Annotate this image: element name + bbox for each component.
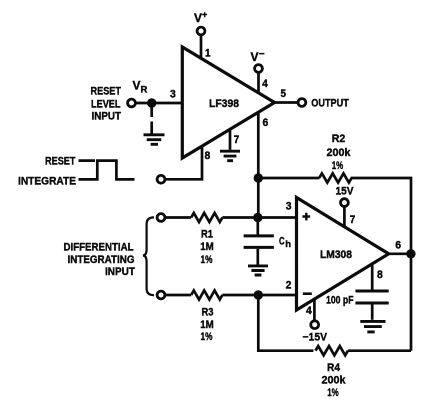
op-amp U1 LF398 body (182, 47, 274, 158)
wire pin3 (136, 102, 183, 105)
svg-text:6: 6 (395, 240, 401, 252)
wire pin6 LM308 (389, 252, 411, 255)
pin8 terminal circle (157, 175, 165, 183)
svg-text:LEVEL: LEVEL (91, 99, 121, 111)
wire pin1 (200, 35, 203, 59)
svg-text:5: 5 (281, 88, 287, 100)
wire pin8 LM308 (371, 264, 374, 290)
svg-text:100 pF: 100 pF (326, 295, 354, 307)
wire R4 to rail (348, 349, 411, 352)
wire pin7 stem (229, 131, 232, 150)
svg-text:DIFFERENTIAL: DIFFERENTIAL (64, 242, 134, 254)
wire reset dash (79, 159, 96, 162)
svg-text:V: V (251, 50, 259, 64)
label Ch (279, 235, 291, 250)
input bottom terminal circle (157, 291, 165, 299)
wire pin5 output (275, 101, 298, 104)
wire R1 to node (222, 216, 296, 219)
svg-text:−15V: −15V (303, 332, 328, 344)
label R3 (200, 307, 214, 344)
V- terminal circle (255, 65, 263, 73)
junction node feedback-top (254, 173, 263, 182)
svg-text:R4: R4 (327, 362, 341, 374)
svg-text:R3: R3 (202, 307, 214, 319)
svg-text:V: V (133, 79, 141, 93)
plus sign (302, 213, 310, 221)
wire feedback bottom (258, 295, 313, 351)
svg-text:h: h (285, 239, 291, 250)
wire pin4 (257, 73, 260, 94)
svg-text:1M: 1M (200, 319, 214, 331)
junction node output-rail (406, 249, 415, 258)
svg-text:+: + (202, 10, 207, 20)
label R1 (200, 229, 214, 267)
svg-text:7: 7 (350, 214, 356, 226)
brace differential input (143, 217, 154, 295)
RESET LEVEL INPUT label (91, 86, 122, 123)
label R4 (322, 362, 347, 399)
ground Ch (248, 266, 268, 275)
label DIFFERENTIAL INTEGRATING INPUT (64, 242, 136, 279)
svg-text:6: 6 (263, 117, 269, 129)
wire input bottom (165, 294, 191, 297)
wire pin4 LM308 (313, 299, 316, 321)
svg-text:INTEGRATING: INTEGRATING (68, 254, 135, 266)
svg-text:R: R (141, 85, 148, 96)
reset level input terminal circle (128, 99, 136, 107)
waveform pulse (79, 161, 135, 180)
wire R3 to node (222, 294, 296, 297)
R2 wire left (258, 177, 319, 180)
output terminal circle (298, 99, 306, 107)
resistor R4 (316, 346, 348, 355)
svg-text:4: 4 (306, 305, 313, 317)
ground VR (144, 135, 165, 145)
label VR (133, 79, 148, 96)
svg-text:LF398: LF398 (209, 98, 239, 110)
svg-text:INPUT: INPUT (105, 266, 135, 278)
resistor R1 (191, 213, 222, 222)
junction VR node (147, 98, 156, 107)
svg-text:1: 1 (205, 48, 211, 60)
ground LF398 pin7 (220, 151, 240, 161)
label R2 (327, 133, 352, 172)
svg-text:15V: 15V (336, 186, 355, 198)
15V terminal circle (341, 199, 349, 207)
capacitor Ch (244, 218, 274, 265)
input top terminal circle (157, 214, 165, 222)
svg-text:1%: 1% (201, 331, 213, 343)
svg-text:LM308: LM308 (320, 249, 352, 261)
resistor R2 (319, 173, 351, 182)
capacitor 100pF (355, 291, 388, 320)
svg-text:OUTPUT: OUTPUT (311, 98, 349, 110)
wire VR ground stem (150, 108, 153, 134)
wire pin6 vertical (257, 112, 260, 217)
wire LM308 pin7 (343, 207, 346, 227)
R2 wire right and right rail (351, 178, 411, 351)
svg-text:RESET: RESET (45, 156, 76, 168)
svg-text:4: 4 (262, 78, 268, 90)
svg-text:RESET: RESET (91, 86, 122, 98)
V+ terminal circle (197, 27, 205, 35)
svg-text:R2: R2 (332, 133, 346, 145)
svg-text:1%: 1% (201, 254, 213, 266)
svg-text:1M: 1M (200, 241, 214, 253)
svg-text:3: 3 (286, 201, 292, 213)
svg-text:8: 8 (377, 269, 383, 281)
svg-text:INTEGRATE: INTEGRATE (18, 176, 76, 188)
svg-text:1%: 1% (332, 160, 344, 172)
svg-text:200k: 200k (327, 147, 352, 159)
svg-text:200k: 200k (322, 375, 347, 387)
svg-text:INPUT: INPUT (92, 111, 122, 123)
svg-text:2: 2 (286, 279, 292, 291)
-15V terminal circle (311, 321, 319, 329)
wire input top (165, 216, 191, 219)
op-amp U2 LM308 body (297, 198, 389, 311)
svg-text:1%: 1% (327, 387, 339, 399)
svg-text:8: 8 (205, 150, 211, 162)
svg-text:C: C (279, 235, 285, 247)
svg-text:R1: R1 (201, 229, 213, 241)
minus sign (303, 292, 312, 295)
svg-text:7: 7 (234, 134, 240, 146)
wire pin8 (166, 147, 202, 180)
svg-text:V: V (194, 11, 202, 25)
junction node plus-input (253, 213, 262, 222)
svg-text:−: − (259, 49, 265, 60)
resistor R3 (191, 291, 222, 300)
ground 100pF (360, 321, 385, 332)
svg-text:3: 3 (170, 89, 176, 101)
junction node minus-input (254, 290, 263, 299)
